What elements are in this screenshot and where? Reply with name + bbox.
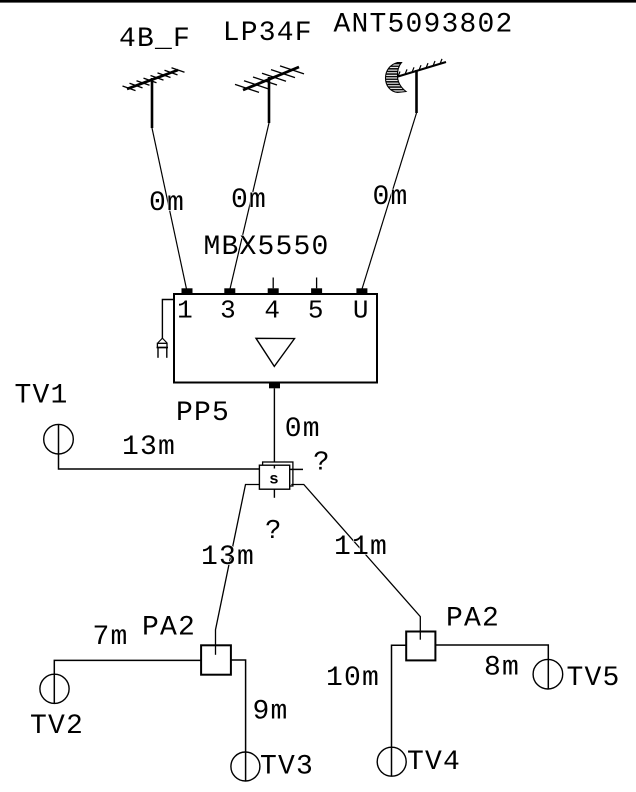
svg-text:TV4: TV4 bbox=[407, 747, 461, 778]
svg-text:5: 5 bbox=[308, 296, 325, 326]
svg-text:10m: 10m bbox=[326, 663, 380, 694]
svg-text:0m: 0m bbox=[231, 185, 267, 216]
svg-text:?: ? bbox=[265, 517, 282, 547]
svg-text:9m: 9m bbox=[253, 697, 289, 728]
svg-text:ANT5093802: ANT5093802 bbox=[334, 9, 514, 40]
svg-text:LP34F: LP34F bbox=[223, 18, 313, 49]
svg-text:TV2: TV2 bbox=[30, 711, 84, 742]
svg-text:7m: 7m bbox=[93, 622, 129, 653]
svg-text:?: ? bbox=[313, 449, 330, 479]
svg-text:13m: 13m bbox=[201, 542, 255, 573]
svg-text:U: U bbox=[353, 296, 370, 326]
svg-text:0m: 0m bbox=[373, 182, 409, 213]
svg-text:MBX5550: MBX5550 bbox=[204, 232, 330, 263]
svg-text:8m: 8m bbox=[484, 653, 520, 684]
svg-text:0m: 0m bbox=[149, 188, 185, 219]
svg-text:11m: 11m bbox=[334, 532, 388, 563]
svg-text:s: s bbox=[269, 471, 280, 489]
svg-text:4B_F: 4B_F bbox=[119, 24, 191, 55]
svg-text:0m: 0m bbox=[285, 414, 321, 445]
svg-text:1: 1 bbox=[177, 296, 194, 326]
svg-text:PA2: PA2 bbox=[142, 613, 196, 644]
svg-text:PP5: PP5 bbox=[176, 398, 230, 429]
svg-text:13m: 13m bbox=[122, 432, 176, 463]
svg-text:TV3: TV3 bbox=[260, 752, 314, 783]
svg-text:3: 3 bbox=[220, 296, 237, 326]
svg-text:4: 4 bbox=[264, 296, 281, 326]
svg-text:PA2: PA2 bbox=[446, 604, 500, 635]
svg-text:TV1: TV1 bbox=[15, 381, 69, 412]
svg-text:TV5: TV5 bbox=[567, 663, 621, 694]
